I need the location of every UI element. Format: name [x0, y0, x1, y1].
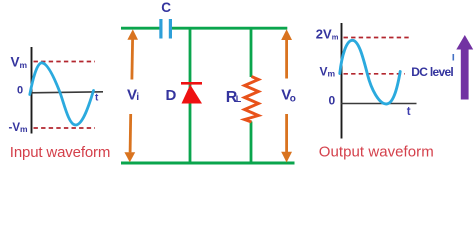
svg-text:2Vm: 2Vm	[316, 26, 339, 41]
svg-text:D: D	[166, 87, 177, 104]
svg-text:t: t	[95, 93, 99, 104]
svg-text:Vm: Vm	[320, 65, 336, 79]
svg-text:Vi: Vi	[127, 86, 139, 103]
svg-text:DC level: DC level	[411, 65, 453, 79]
svg-text:C: C	[161, 0, 171, 15]
svg-text:Vo: Vo	[281, 87, 296, 105]
svg-text:Input waveform: Input waveform	[10, 144, 110, 161]
svg-text:0: 0	[329, 94, 336, 108]
svg-text:RL: RL	[226, 89, 242, 106]
svg-text:-Vm: -Vm	[9, 122, 29, 134]
svg-text:0: 0	[17, 85, 23, 97]
svg-text:Output waveform: Output waveform	[319, 144, 434, 161]
svg-text:Vm: Vm	[11, 55, 28, 70]
svg-text:t: t	[407, 106, 411, 118]
